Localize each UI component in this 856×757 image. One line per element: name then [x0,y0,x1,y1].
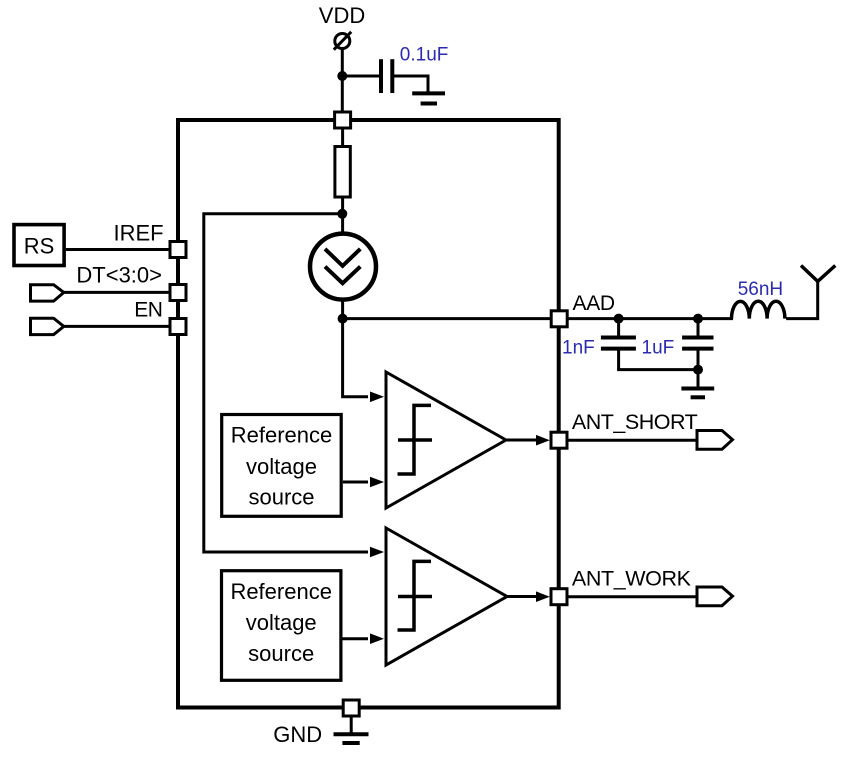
svg-text:Reference: Reference [230,579,332,604]
wire node to pin AAD [343,317,552,320]
wire node to current source I1 [341,214,344,235]
wire current source I1 to node AAD [341,299,344,319]
arrowhead into comparator U2 plus input [370,392,384,403]
ground (C1) [412,93,445,103]
ANT_WORK output connector [697,587,733,606]
arrowhead into pin ANT_SHORT [536,435,550,446]
RS box [14,225,64,266]
pin AAD [551,311,567,327]
svg-text:EN: EN [134,298,162,321]
wire EN connector to pin [64,325,169,328]
antenna ANT1 [801,266,835,282]
wire node to capacitor C3 [697,319,700,337]
capacitor C1 0.1uF [381,59,392,93]
comparator U3 [386,528,507,665]
EN input connector [31,318,64,334]
arrowhead into comparator U3 minus input [370,633,384,644]
pin GND [343,700,359,716]
arrowhead into pin ANT_WORK [536,591,550,602]
wire capacitor C1 to ground [394,76,428,92]
svg-text:Reference: Reference [231,423,333,448]
node resistor bottom [337,209,347,219]
node ground junction [693,365,703,375]
svg-text:56nH: 56nH [738,279,783,300]
wire comparator U3 output to pin ANT_WORK [507,595,540,598]
pin VDD [335,112,351,128]
wire RS to pin IREF [66,248,169,251]
node capacitor C2 top [614,314,624,324]
svg-text:VDD: VDD [319,3,365,28]
ANT_SHORT output connector [697,431,733,450]
wire node down to comparator U2 plus input [343,319,368,397]
node capacitor C3 top [693,314,703,324]
pin ANT_WORK [551,589,567,605]
svg-text:source: source [248,485,314,510]
ground (GND pin) [334,734,369,743]
wire ground node down [697,350,700,387]
arrowhead into comparator U2 minus input [370,477,384,488]
wire pin GND to ground [350,717,353,733]
VDD terminal [334,32,351,50]
IC boundary U1 [178,120,559,708]
wire pin to resistor R1 [341,129,344,146]
DT input connector [31,285,64,301]
svg-text:GND: GND [273,722,322,747]
svg-text:DT<3:0>: DT<3:0> [76,262,162,287]
svg-text:ANT_SHORT: ANT_SHORT [572,410,698,434]
pin ANT_SHORT [551,432,567,448]
pin DT [170,285,186,301]
wire node to comparator U3 input (left/down) [204,214,368,552]
svg-text:1uF: 1uF [642,338,675,359]
wire pin AAD to antenna network [569,317,734,320]
svg-text:ANT_WORK: ANT_WORK [572,566,692,590]
wire inductor L1 to antenna [786,281,818,318]
comparator U2 [386,372,506,508]
wire reference 1 to comparator U2 minus input [343,481,368,484]
wire resistor R1 to node [341,199,344,215]
ground (C2 C3) [681,389,714,398]
svg-text:1nF: 1nF [562,338,595,359]
wire pin ANT_WORK to output connector [568,595,697,598]
wire pin ANT_SHORT to output connector [568,439,697,442]
node VDD junction [337,71,347,81]
svg-text:0.1uF: 0.1uF [400,45,449,66]
wire comparator U2 output to pin ANT_SHORT [506,439,540,442]
wire node to capacitor C2 [617,319,620,337]
svg-text:IREF: IREF [113,220,163,245]
svg-text:voltage: voltage [246,610,317,635]
svg-text:RS: RS [24,234,55,259]
wire DT connector to pin [64,291,169,294]
current source I1 [310,234,376,300]
wire junction to capacitor C1 [342,75,379,78]
inductor L1 56nH [732,301,785,318]
wire reference 2 to comparator U3 minus input [343,637,369,640]
capacitor C2 1nF [601,338,636,349]
resistor R1 [335,147,350,198]
reference voltage source block 1 [222,415,342,517]
capacitor C3 1uF [682,338,713,349]
pin IREF [170,242,186,258]
svg-text:source: source [248,641,314,666]
reference voltage source block 2 [222,571,341,681]
svg-text:voltage: voltage [246,454,317,479]
svg-text:AAD: AAD [573,292,615,315]
wire capacitor C2 bottom to ground node [619,350,698,370]
wire VDD to pin [341,49,344,113]
pin EN [170,319,186,335]
arrowhead into comparator U3 plus input [370,547,384,558]
node AAD internal junction [338,314,348,324]
